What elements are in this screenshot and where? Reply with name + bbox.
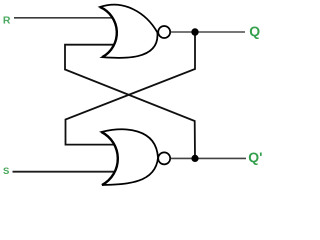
wire Q output [171, 31, 245, 33]
junction dot at Q node [191, 28, 198, 35]
NOR gate U1 (top) body [100, 5, 157, 58]
svg-text:Q: Q [249, 23, 260, 39]
svg-text:S: S [3, 166, 9, 177]
wire R input [14, 17, 116, 19]
U1 output inversion bubble [158, 26, 170, 38]
wire net Q' to top gate input (feedback) [65, 45, 195, 159]
wire S input [13, 171, 117, 173]
svg-text:R: R [3, 15, 11, 27]
U2 input arc emphasis [102, 132, 118, 185]
U2 output inversion bubble [158, 152, 170, 164]
junction dot at Q' node [191, 155, 198, 162]
wire Q' output [171, 157, 246, 159]
U1 input arc emphasis [100, 7, 117, 57]
svg-text:Q': Q' [248, 149, 262, 165]
wire net Q to bottom gate input (feedback) [66, 32, 196, 145]
NOR gate U2 (bottom) body [102, 129, 159, 185]
